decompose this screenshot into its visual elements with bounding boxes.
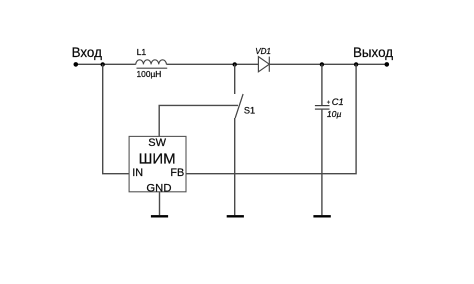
wire: SW pin riser to switch bbox=[159, 105, 238, 136]
svg-text:Вход: Вход bbox=[72, 45, 102, 60]
ground under C1 bbox=[313, 215, 330, 217]
svg-text:C1: C1 bbox=[332, 97, 344, 107]
node: junction input branch bbox=[101, 62, 105, 66]
node: junction switch branch bbox=[233, 62, 237, 66]
svg-text:ШИМ: ШИМ bbox=[139, 150, 176, 167]
node: junction C1 branch bbox=[320, 62, 324, 66]
node: input terminal dot bbox=[74, 62, 79, 67]
op-amp U1: ШИМ controller box bbox=[129, 136, 186, 191]
capacitor C1 plates bbox=[315, 106, 330, 110]
wire: GND pin down bbox=[159, 192, 161, 215]
svg-text:10µ: 10µ bbox=[327, 109, 342, 119]
node: output terminal dot bbox=[385, 62, 390, 67]
svg-text:FB: FB bbox=[170, 167, 184, 179]
wire: switch bottom lead to ground bbox=[234, 118, 236, 215]
svg-text:SW: SW bbox=[148, 137, 166, 149]
switch S1 blade bbox=[235, 94, 243, 118]
wire: input junction down and to IN pin bbox=[103, 64, 129, 173]
node: junction FB branch bbox=[354, 62, 358, 66]
label + polarity bbox=[327, 101, 330, 104]
wire: inductor to diode bbox=[166, 63, 258, 65]
svg-text:VD1: VD1 bbox=[255, 47, 271, 56]
diode VD1 bbox=[258, 57, 269, 72]
wire: input terminal to inductor bbox=[76, 63, 136, 65]
svg-text:L1: L1 bbox=[137, 47, 147, 57]
svg-text:S1: S1 bbox=[244, 106, 255, 116]
inductor L1 bbox=[136, 60, 167, 68]
wire: C1 bottom lead to ground bbox=[321, 110, 323, 216]
wire: FB pin to FB junction riser bbox=[186, 64, 356, 173]
svg-text:IN: IN bbox=[132, 167, 143, 179]
wire: diode to output terminal bbox=[269, 63, 387, 65]
ground under switch bbox=[227, 215, 244, 217]
svg-text:100µH: 100µH bbox=[137, 69, 162, 79]
ground under GND pin bbox=[151, 215, 168, 217]
wire: switch top lead bbox=[234, 64, 236, 94]
wire: C1 top lead bbox=[321, 64, 323, 105]
svg-text:Выход: Выход bbox=[353, 45, 393, 60]
